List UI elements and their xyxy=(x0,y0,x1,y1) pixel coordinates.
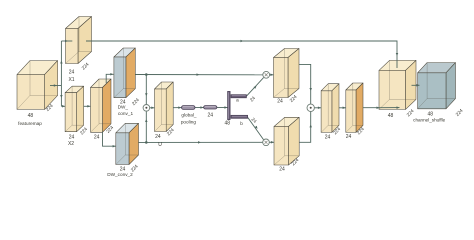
svg-text:DW_: DW_ xyxy=(118,105,129,110)
output cube 48x224 xyxy=(379,60,416,109)
wire branch down to concat1 xyxy=(145,75,148,105)
svg-text:24: 24 xyxy=(208,113,214,119)
multiply node bottom xyxy=(263,139,270,146)
split branch b bar xyxy=(231,115,248,118)
wire box B to output cube xyxy=(363,106,400,109)
svg-text:48: 48 xyxy=(225,120,231,126)
svg-text:DW_conv_2: DW_conv_2 xyxy=(107,172,133,177)
wire branch up to concat1 xyxy=(145,111,148,142)
split vertical bar xyxy=(228,91,231,119)
conv box (24x224) xyxy=(91,79,112,132)
svg-text:24: 24 xyxy=(69,134,75,140)
wire fc to split xyxy=(217,106,228,109)
wire DW_conv_2 to multiply2 xyxy=(139,141,263,144)
wire multiply1 to V1 xyxy=(270,74,274,77)
svg-text:X1: X1 xyxy=(68,77,74,83)
svg-text:24: 24 xyxy=(94,134,100,140)
split branch a bar xyxy=(231,95,246,98)
svg-text:channel_shuffle: channel_shuffle xyxy=(413,117,446,122)
wire split a to multiply1 xyxy=(246,78,263,97)
svg-text:24: 24 xyxy=(346,134,352,140)
svg-text:pooling: pooling xyxy=(181,119,197,124)
wire V2 to concat2 xyxy=(299,112,312,143)
wire split b to multiply2 xyxy=(248,117,264,140)
wire conv to DW_conv_2 xyxy=(103,132,116,147)
svg-text:24: 24 xyxy=(155,134,161,140)
svg-text:a: a xyxy=(236,98,239,103)
wire U to global_pooling xyxy=(173,106,181,109)
wire into X2 xyxy=(61,105,65,108)
fc bar (24) xyxy=(204,106,217,109)
wire DW_conv_1 to multiply1 xyxy=(135,73,262,76)
svg-text:48: 48 xyxy=(28,113,34,119)
svg-text:48: 48 xyxy=(388,113,394,119)
svg-text:U: U xyxy=(158,142,162,148)
wire top skip X1 to output cube xyxy=(86,40,398,68)
DW_conv_1 box xyxy=(114,48,135,98)
wire V1 to concat2 xyxy=(299,64,312,104)
svg-text:24: 24 xyxy=(279,167,285,173)
wire output cube to channel_shuffle xyxy=(412,84,420,87)
global_pooling bar xyxy=(182,106,196,110)
wire conv to DW_conv_1 xyxy=(106,73,113,83)
svg-text:global_: global_ xyxy=(181,113,197,118)
svg-text:24: 24 xyxy=(325,134,331,140)
X2 box (24x224) xyxy=(65,86,84,132)
post-concat box A (24x224) xyxy=(321,84,339,133)
DW_conv_2 box xyxy=(116,123,139,164)
svg-text:24: 24 xyxy=(277,99,283,105)
wire split branch vertical xyxy=(60,41,63,106)
svg-text:X2: X2 xyxy=(68,141,74,147)
X1 box (24x224) xyxy=(66,17,92,64)
multiply node top xyxy=(263,71,270,78)
wire box A to box B xyxy=(339,107,346,110)
channel_shuffle cube 48x224 xyxy=(418,63,456,109)
svg-text:featuremap: featuremap xyxy=(18,121,42,126)
svg-text:24: 24 xyxy=(69,70,75,76)
wire multiply2 to V2 xyxy=(269,141,274,144)
U box (24x224) xyxy=(155,82,174,132)
V1 box top branch (24x224) xyxy=(274,49,300,98)
wire featuremap output xyxy=(50,84,61,87)
wire global_pooling to fc xyxy=(195,106,204,109)
wire X2 to conv xyxy=(84,105,91,108)
V2 box bottom branch (24x224) xyxy=(274,117,299,165)
featuremap cube (48x224) xyxy=(17,61,58,110)
wire concat2 to box A xyxy=(314,107,321,110)
post-concat box B (24x224) xyxy=(346,83,363,132)
concat node 1 xyxy=(143,105,150,112)
wire concat1 to U xyxy=(150,107,155,110)
concat node 2 xyxy=(307,104,314,111)
svg-text:b: b xyxy=(240,121,243,126)
svg-text:conv_1: conv_1 xyxy=(118,111,134,116)
wire into X1 xyxy=(61,40,72,43)
